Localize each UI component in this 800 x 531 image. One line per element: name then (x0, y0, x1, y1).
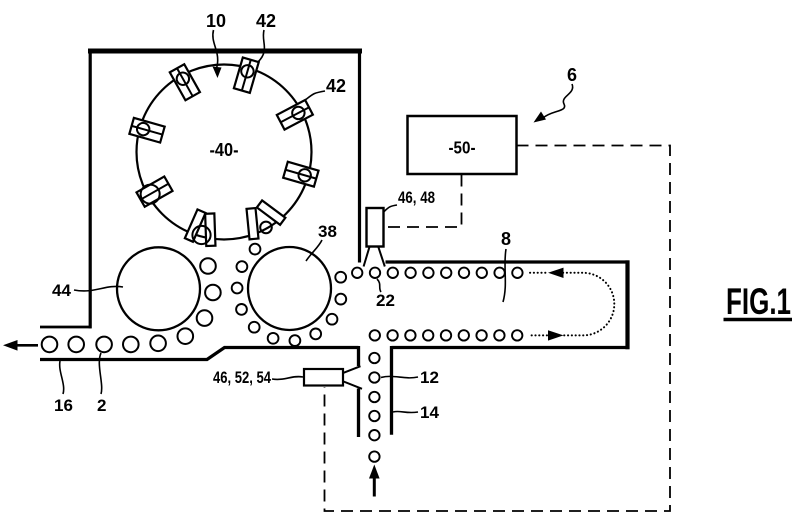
svg-text:6: 6 (567, 65, 577, 85)
gripper 42 left (129, 118, 164, 143)
containers on bottom row of conveyor 8 (370, 330, 523, 340)
svg-text:-40-: -40- (210, 140, 239, 160)
svg-text:46, 48: 46, 48 (398, 188, 435, 207)
gripper 42 right (283, 162, 318, 187)
wire: dashed control line from box 50 bottom to side sensor 46,48 (385, 175, 462, 228)
containers in feed channel 12/14 (369, 353, 379, 462)
svg-text:12: 12 (420, 368, 439, 387)
arrowhead on top dotted path (pointing left) (548, 268, 564, 278)
svg-text:22: 22 (376, 291, 395, 310)
controller box 50 (408, 116, 517, 174)
guide rail: feed channel right wall 14 (390, 346, 393, 435)
gripper 42 open jaws bottom-left releasing container (185, 209, 216, 245)
svg-text:10: 10 (206, 11, 226, 31)
wire: dashed control line from box 50 right to bottom sensor (loop) (325, 146, 671, 512)
containers on top row of conveyor 8 (352, 268, 523, 278)
svg-text:8: 8 (501, 229, 511, 249)
exit arrow (left, label 16 direction) (3, 340, 38, 351)
enclosure wall: top border of machine housing (88, 49, 362, 54)
guide rail: exit conveyor top guide (40, 326, 92, 329)
svg-text:44: 44 (52, 281, 71, 300)
sensor 46,48 body (367, 208, 384, 247)
enclosure wall: right wall of upper chamber (358, 49, 361, 263)
buffer wheel 44 (117, 247, 200, 330)
containers around buffer wheel 44 (150, 258, 220, 351)
sensor 46,48 beam legs (364, 247, 385, 267)
guide rail: right end wall of conveyor section 8 (625, 260, 629, 349)
svg-text:42: 42 (326, 76, 346, 96)
arrowhead on bottom dotted path (pointing right) (548, 330, 564, 340)
sensor 46,52,54 body (304, 369, 343, 386)
gripper 42 open jaws bottom-right releasing container (247, 200, 286, 239)
star wheel 40 rim (137, 65, 312, 240)
star wheel 38 (248, 247, 331, 330)
gripper 42 upper-right (277, 100, 313, 130)
containers on exit conveyor 2 (42, 337, 139, 353)
gripper 42 upper-left (170, 64, 200, 100)
svg-text:38: 38 (318, 222, 337, 241)
guide rail: top line of return conveyor section 8 (386, 260, 630, 263)
dotted flow path with U-turn in conveyor 8 (530, 273, 614, 336)
svg-text:46, 52, 54: 46, 52, 54 (213, 368, 271, 387)
svg-text:-50-: -50- (449, 138, 476, 158)
guide rail: bottom line of conveyor section 8 (392, 346, 630, 349)
containers around star wheel 38 (232, 244, 346, 346)
sensor 46,52,54 beam legs (344, 366, 363, 389)
svg-text:42: 42 (256, 11, 276, 31)
svg-text:14: 14 (420, 403, 439, 422)
feed arrow (bottom, pointing up) (369, 465, 380, 497)
svg-text:16: 16 (54, 396, 73, 415)
guide rail: bottom boundary from exit conveyor to feed channel (40, 348, 359, 360)
gripper 42 lower-left with container (136, 175, 173, 207)
svg-text:2: 2 (97, 396, 106, 415)
guide rail: feed channel left wall upper part (357, 346, 360, 366)
enclosure wall: left wall (89, 49, 92, 329)
svg-text:FIG.1: FIG.1 (726, 281, 791, 322)
guide rail: feed channel left wall lower part (357, 389, 360, 438)
gripper 42 top (234, 57, 259, 92)
